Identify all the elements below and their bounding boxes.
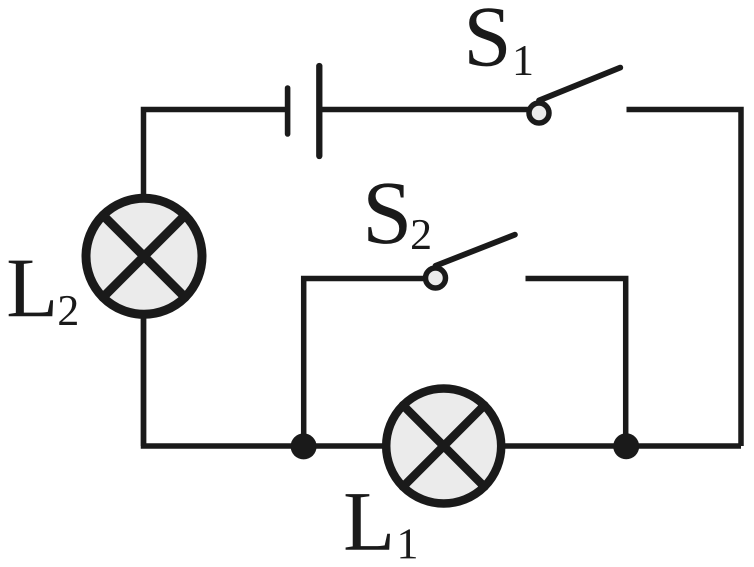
switch S2 arm bbox=[436, 235, 515, 266]
lamp L2 cross bbox=[103, 215, 185, 297]
label L1 subscript 1 bbox=[400, 529, 415, 558]
lamp L2 body bbox=[86, 198, 202, 314]
junction node A bbox=[291, 433, 317, 459]
switch S1 arm bbox=[539, 68, 620, 101]
battery B1 negative plate (short) bbox=[285, 88, 291, 134]
label S2 letter S bbox=[368, 183, 406, 243]
junction node B bbox=[613, 433, 639, 459]
lamp L1 cross bbox=[403, 405, 484, 486]
battery B1 positive plate (tall) bbox=[316, 66, 322, 156]
switch S1 pivot circle bbox=[529, 103, 549, 123]
wire: L2 bottom lead bbox=[141, 318, 147, 446]
wire: S2 right side down to junction B bbox=[526, 279, 626, 447]
label L2 subscript 2 bbox=[59, 296, 77, 325]
wire: S2 left branch from junction A up and right to S2 bbox=[304, 279, 425, 447]
label S1 subscript 1 bbox=[516, 46, 531, 75]
label S1 letter S bbox=[469, 8, 506, 66]
wire: battery positive to switch S1 bbox=[319, 107, 528, 113]
label L2 letter L bbox=[9, 261, 53, 317]
label L1 letter L bbox=[346, 494, 390, 550]
lamp L1 body bbox=[386, 389, 501, 504]
wire: top-left corner, L2 top lead up to battery negative bbox=[144, 110, 288, 201]
wire: bottom rail from right corner to L2 bottom lead bbox=[144, 318, 742, 446]
switch S2 pivot circle bbox=[426, 268, 446, 288]
wire: S1 to top-right corner and right side down to bottom-right corner bbox=[627, 110, 742, 447]
label S2 subscript 2 bbox=[412, 220, 430, 249]
